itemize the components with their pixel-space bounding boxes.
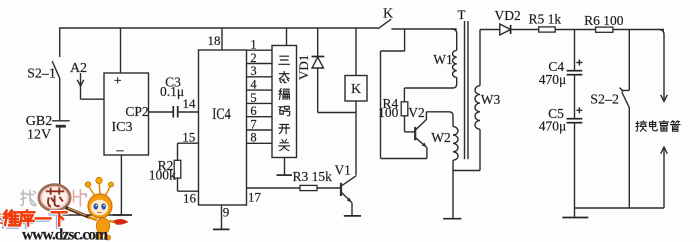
- transistor V1 base bar: [340, 183, 342, 196]
- svg-text:S2–1: S2–1: [27, 66, 56, 81]
- label encoder char bian: [279, 89, 289, 100]
- resistor R5 body: [539, 27, 556, 32]
- capacitor C3 left plate: [172, 106, 174, 118]
- svg-text:V2: V2: [408, 105, 425, 120]
- svg-text:+: +: [114, 74, 122, 89]
- resistor R6 body: [596, 27, 613, 32]
- label detonator char dian: [649, 121, 657, 131]
- capacitor C5 plus mark: [576, 107, 582, 113]
- svg-text:1: 1: [250, 38, 256, 52]
- wire R4 to V2 base: [405, 131, 416, 133]
- wire VD1 lower lead: [317, 68, 319, 113]
- wire right rail lower: [663, 147, 665, 208]
- resistor R4 body: [401, 102, 408, 116]
- wire relay K coil from top rail: [355, 28, 357, 76]
- watermark char zhao (find) gray: [21, 191, 36, 206]
- svg-text:7: 7: [250, 117, 256, 131]
- svg-text:K: K: [383, 7, 393, 22]
- transistor V2 emitter: [416, 138, 427, 148]
- watermark magnifier glass circle: [39, 185, 70, 211]
- watermark text wei-ku-yi-xia blue shadow: [2, 212, 65, 227]
- svg-text:15: 15: [182, 129, 195, 144]
- diode VD1 triangle pointing up: [312, 57, 324, 68]
- IC3 box: [104, 73, 149, 155]
- ground bar below encoder: [277, 174, 293, 176]
- wire right rail upper with corner: [659, 30, 664, 102]
- watermark speed lines: [0, 215, 8, 224]
- svg-text:4: 4: [250, 78, 257, 92]
- watermark mascot antennae: [89, 182, 111, 196]
- svg-text:3: 3: [250, 64, 256, 78]
- wire V2 emitter down: [426, 148, 428, 159]
- capacitor C4 bottom plate: [567, 74, 583, 76]
- antenna A2 arrowhead: [77, 80, 84, 86]
- battery GB2 positive long plate: [52, 120, 70, 122]
- wire R5 to R6 through C4 node: [555, 29, 595, 31]
- wire C3 to IC4 pin 14: [178, 111, 199, 113]
- wire W1 top lead with corner: [452, 29, 457, 50]
- diode VD2 cathode bar: [510, 25, 512, 34]
- switch S2-1 blade: [52, 61, 60, 78]
- wire W1 bottom lead: [404, 77, 456, 88]
- watermark mascot eyes: [94, 203, 99, 209]
- wire VD2 to R5: [511, 29, 539, 31]
- ground bar below W2: [443, 218, 461, 220]
- label encoder char guan: [279, 140, 290, 151]
- wire V1 emitter to ground: [351, 203, 353, 216]
- watermark mascot red flag: [113, 219, 129, 225]
- wire encoder ground lead: [284, 158, 286, 176]
- svg-text:S2–2: S2–2: [590, 92, 619, 107]
- svg-text:100: 100: [378, 105, 399, 120]
- wire relay K coil to V1 collector: [355, 101, 357, 176]
- watermark mascot mouth: [98, 211, 102, 214]
- capacitor C5 top plate: [567, 118, 583, 120]
- transformer T core line left: [464, 21, 466, 159]
- wire R6 to right rail corner: [613, 29, 664, 31]
- wire S2-2 lower lead to bottom rail: [628, 108, 630, 208]
- wire V2 collector to W2: [426, 112, 453, 127]
- wire IC3 ground lead: [120, 155, 122, 215]
- svg-text:2: 2: [250, 51, 256, 65]
- output arrow up: [661, 147, 668, 154]
- antenna A2 lead: [80, 73, 82, 99]
- svg-text:V1: V1: [334, 162, 351, 177]
- wire IC4 pin 18 from top rail: [221, 28, 223, 50]
- wire IC4 pin 3 stub to encoder: [247, 76, 273, 78]
- watermark mascot legs: [95, 234, 101, 239]
- ground bar below IC4 pin 9: [213, 228, 230, 230]
- wire V2 emitter return bottom: [381, 158, 427, 160]
- resistor R3 body: [300, 185, 317, 190]
- svg-text:W3: W3: [481, 92, 501, 107]
- watermark dzsc.com logo group: [0, 177, 129, 242]
- watermark mascot arm right: [109, 221, 117, 223]
- svg-text:CP2: CP2: [125, 104, 148, 119]
- wire IC3 supply from top rail: [120, 28, 122, 73]
- svg-text:www.dzsc.com: www.dzsc.com: [22, 227, 108, 242]
- wire IC4 pin 4 stub to encoder: [247, 89, 273, 91]
- wire C4 to C5: [574, 75, 576, 119]
- wire R3 to V1 base: [317, 187, 341, 189]
- label detonator char jie: [636, 121, 646, 131]
- output arrow down: [661, 95, 668, 102]
- diode VD2 triangle: [500, 24, 511, 35]
- svg-text:R6 100: R6 100: [584, 13, 624, 28]
- wire R2 upper lead: [177, 143, 179, 160]
- svg-text:R5 1k: R5 1k: [528, 12, 561, 27]
- wire IC4 pin 7 stub to encoder: [247, 129, 273, 131]
- wire C5 to bottom rail: [574, 123, 576, 218]
- wire W3 bottom lead: [479, 129, 481, 170]
- svg-text:–: –: [116, 143, 125, 158]
- wire R4 lower lead: [404, 116, 406, 132]
- svg-text:T: T: [458, 7, 466, 22]
- ground bar below V1: [344, 215, 361, 217]
- wire S2-2 branch from R6 node: [628, 30, 630, 91]
- watermark mascot face: [91, 200, 109, 216]
- svg-text:W2: W2: [431, 130, 451, 145]
- wire top supply rail left section: [60, 27, 378, 29]
- wire IC4 pin 2 stub to encoder: [247, 63, 273, 65]
- wire IC4 pin 16 stub: [178, 190, 199, 192]
- watermark mascot body: [96, 218, 109, 234]
- wire W3 top lead: [479, 30, 481, 86]
- transformer T core line right: [467, 21, 469, 159]
- svg-text:K: K: [351, 82, 361, 97]
- svg-text:0.1μ: 0.1μ: [160, 84, 184, 99]
- svg-text:470μ: 470μ: [539, 72, 567, 87]
- wire IC4 pin 8 stub to encoder: [247, 142, 273, 144]
- label detonator char lei: [659, 121, 668, 131]
- ground bar below C5: [562, 217, 588, 219]
- wire encoder supply from top rail: [286, 28, 288, 46]
- label encoder char kai: [279, 124, 290, 133]
- watermark mascot arm left holding handle: [89, 217, 98, 221]
- svg-text:A2: A2: [70, 61, 87, 76]
- svg-text:IC4: IC4: [212, 106, 231, 123]
- node C4 filter branch: [574, 30, 576, 71]
- svg-text:W1: W1: [433, 52, 453, 67]
- ground bar below IC3: [113, 214, 132, 216]
- svg-text:470μ: 470μ: [539, 118, 567, 133]
- wire IC4 pin 1 stub to encoder: [247, 49, 273, 51]
- label detonator char guan3: [670, 121, 679, 131]
- transistor V1 emitter: [342, 193, 353, 203]
- svg-text:16: 16: [183, 190, 197, 205]
- capacitor C4 plus mark: [576, 60, 582, 66]
- label encoder char san: [279, 56, 289, 64]
- wire left rail upper segment to S2-1: [59, 27, 61, 57]
- watermark text wei-ku-yi-xia white halo: [4, 210, 67, 225]
- svg-text:12V: 12V: [27, 128, 51, 143]
- svg-text:9: 9: [223, 205, 230, 220]
- svg-text:VD1: VD1: [296, 55, 311, 80]
- wire W3 return to W2 ground line: [453, 170, 480, 172]
- diode VD1 cathode bar: [312, 56, 325, 58]
- label encoder char tai: [279, 72, 289, 83]
- svg-text:VD2: VD2: [494, 8, 520, 23]
- wire R2 lower lead: [177, 178, 179, 191]
- capacitor C4 top plate: [567, 70, 583, 72]
- transistor V2 collector: [416, 112, 427, 130]
- wire W1 to R4: [403, 88, 405, 102]
- wire W2 bottom to ground: [452, 160, 454, 219]
- wire bottom return battery to IC3 ground: [60, 214, 122, 216]
- capacitor C3 right plate: [177, 106, 179, 118]
- resistor R2 body: [174, 160, 181, 178]
- watermark mascot antenna balls: [85, 182, 90, 187]
- switch relay contact K blade: [378, 19, 391, 29]
- transistor V2 emitter arrow: [422, 143, 427, 148]
- wire IC4 pin 9 ground lead: [221, 205, 223, 229]
- inductor W1 primary winding: [452, 50, 456, 77]
- wire antenna to IC3 input: [81, 98, 105, 100]
- svg-text:17: 17: [248, 189, 262, 204]
- inductor W3 secondary winding: [475, 86, 480, 130]
- wire IC4 pin 15 stub: [178, 142, 199, 144]
- wire VD1 to relay coil line: [318, 112, 356, 114]
- svg-text:6: 6: [250, 104, 256, 118]
- wire IC4 pin 17 to R3: [247, 187, 301, 189]
- svg-text:R3 15k: R3 15k: [293, 169, 333, 184]
- wire left rail from S2-1 to battery: [59, 79, 61, 121]
- tri-state encoder switch box: [272, 46, 297, 158]
- transistor V1 emitter arrow: [347, 198, 352, 203]
- watermark magnifier handle: [66, 208, 91, 218]
- svg-text:IC3: IC3: [112, 120, 133, 135]
- watermark mascot head: [88, 194, 112, 218]
- label encoder char ma: [279, 106, 290, 116]
- watermark char xin (chip) inside magnifier: [47, 189, 63, 207]
- wire W3 top to VD2: [480, 29, 500, 31]
- wire VD1 anode branch from top rail: [317, 28, 319, 57]
- watermark char pian (picture) pink: [74, 190, 87, 206]
- wire left rail battery minus down to common ground: [59, 126, 61, 215]
- svg-text:5: 5: [250, 91, 256, 105]
- op IC4 box: [199, 50, 247, 205]
- watermark text wei-ku-yi-xia red: [4, 210, 67, 225]
- svg-text:18: 18: [208, 33, 221, 48]
- wire top rail right of relay contact K to W1: [391, 28, 456, 30]
- svg-text:8: 8: [250, 131, 256, 145]
- transistor V2 base bar: [414, 127, 416, 140]
- wire emitter return left riser: [380, 51, 382, 159]
- switch S2-2 contact tick: [620, 88, 630, 92]
- wire emitter return top horizontal: [381, 50, 405, 52]
- capacitor C5 bottom plate: [567, 122, 583, 124]
- switch S2-2 blade: [622, 92, 630, 108]
- wire emitter return to K contact output: [404, 29, 406, 51]
- relay K coil box: [345, 76, 367, 102]
- wire IC3 output to C3: [149, 111, 174, 113]
- transistor V1 collector: [342, 176, 357, 186]
- battery GB2 negative short plate: [56, 125, 66, 128]
- svg-text:100k: 100k: [149, 167, 176, 182]
- inductor W2 feedback winding: [453, 127, 458, 161]
- svg-text:14: 14: [183, 96, 197, 111]
- wire IC4 pin 6 stub to encoder: [247, 116, 273, 118]
- wire IC4 pin 5 stub to encoder: [247, 102, 273, 104]
- wire bottom output rail: [575, 207, 665, 209]
